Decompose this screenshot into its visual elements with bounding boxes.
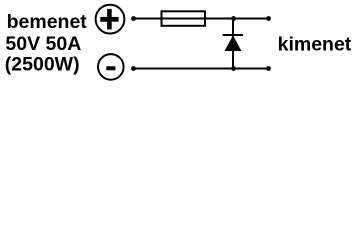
- svg-text:kimenet: kimenet: [278, 34, 352, 56]
- svg-text:50V 50A: 50V 50A: [5, 33, 81, 55]
- svg-text:(2500W): (2500W): [5, 53, 80, 75]
- svg-text:bemenet: bemenet: [7, 11, 88, 33]
